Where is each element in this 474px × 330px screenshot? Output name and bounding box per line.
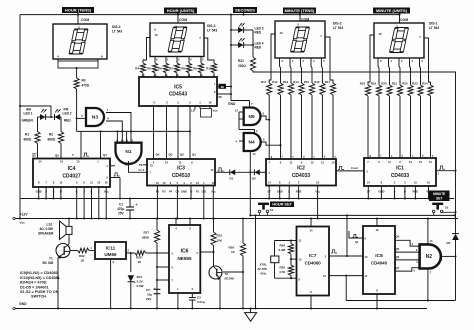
svg-text:HOUR (TENS): HOUR (TENS) (65, 7, 92, 12)
svg-text:N5: N5 (249, 114, 255, 120)
wire N4 input stub (239, 140, 244, 142)
wire xtal bottom (290, 276, 292, 279)
resistor R3 (76, 68, 78, 78)
wire IC8 Q4 out (395, 240, 420, 246)
wire hourset junction drop (249, 151, 251, 215)
svg-text:GND: GND (181, 190, 187, 194)
diode D1 (230, 169, 235, 175)
wire led feed (20, 106, 51, 117)
svg-text:N4: N4 (249, 140, 255, 146)
wire MINUTE UNITS stub (399, 14, 401, 24)
svg-text:RED: RED (64, 118, 71, 122)
svg-text:Ph: Ph (219, 95, 223, 99)
svg-text:MINUTE (TENS): MINUTE (TENS) (285, 8, 315, 13)
svg-text:S: S (45, 190, 47, 194)
wire IC6 pin4 (175, 219, 177, 226)
wire IC8 Q7 out (395, 268, 420, 271)
wire IC8 Q6 out (395, 259, 420, 261)
svg-text:GND: GND (228, 102, 236, 106)
node HOUR SET label (270, 202, 294, 208)
wire display3 bottom pins (154, 57, 156, 64)
svg-text:R31: R31 (238, 59, 244, 63)
svg-text:D2: D2 (252, 177, 256, 181)
wire display1 left segment (368, 35, 374, 85)
svg-text:COM: COM (400, 18, 408, 22)
wire N3 upper line (106, 113, 131, 143)
svg-text:470μ: 470μ (117, 207, 124, 211)
wire IC7 pin14 (310, 219, 312, 227)
gate N4 AND (244, 133, 261, 151)
svg-text:R2: R2 (49, 133, 53, 137)
resistor R28 1K (135, 251, 146, 256)
wire gnd rail (15, 308, 427, 310)
svg-text:R15: R15 (304, 80, 310, 84)
wire N2 vcc pin14 (427, 219, 429, 245)
wire bus to IC4 clock (80, 131, 82, 158)
svg-text:Q1: Q1 (192, 153, 196, 157)
wire IC11 pin2 out (126, 252, 135, 254)
svg-text:S1: S1 (270, 208, 274, 212)
diode D2 (254, 169, 259, 175)
svg-text:SWITCH: SWITCH (31, 295, 46, 299)
svg-text:Q1: Q1 (103, 153, 107, 157)
wire IC6 pin1 gnd (177, 293, 179, 309)
wire IC6 pin2 right (200, 251, 213, 253)
wire display1 bottom pins (378, 58, 379, 85)
svg-text:3.3V: 3.3V (137, 280, 143, 284)
svg-text:10: 10 (279, 31, 283, 35)
svg-text:R19: R19 (371, 82, 377, 86)
wire N1 input stubs (116, 131, 118, 142)
ic IC3 CD4510 (147, 159, 215, 186)
svg-text:LT 543: LT 543 (112, 30, 122, 34)
resistor R27 680K (156, 219, 158, 231)
svg-text:KHz: KHz (261, 272, 267, 276)
wire N5 output (262, 116, 270, 120)
resistors R18-R24 (365, 85, 370, 96)
wire IC11 pin3 gnd (110, 259, 112, 309)
svg-text:D5: D5 (447, 241, 451, 245)
svg-text:14: 14 (253, 152, 256, 156)
svg-text:IC11: IC11 (106, 246, 116, 251)
diode D5 (452, 234, 459, 240)
gate N2 AND (420, 244, 441, 268)
svg-text:10: 10 (154, 33, 158, 37)
svg-text:470Ω: 470Ω (82, 84, 90, 88)
capacitor C1 470u (129, 199, 131, 208)
wire HOUR TENS stub (77, 13, 79, 24)
wire T2 base (223, 271, 243, 273)
wire D1-D2 junction (235, 171, 254, 173)
svg-text:DIS-4: DIS-4 (112, 25, 121, 29)
svg-text:R6: R6 (158, 67, 162, 71)
led LED2 red (51, 116, 54, 118)
svg-text:14: 14 (165, 161, 168, 165)
wire top COM supply bus (20, 14, 400, 16)
svg-text:680Ω: 680Ω (48, 138, 56, 142)
svg-text:CD4543: CD4543 (169, 92, 188, 98)
svg-text:R27: R27 (144, 231, 150, 235)
svg-text:220Ω: 220Ω (238, 64, 246, 68)
resistor R32 1K (70, 250, 78, 252)
svg-text:+12V: +12V (20, 213, 29, 217)
led LED4 red (231, 44, 238, 46)
svg-text:R25: R25 (217, 234, 223, 238)
svg-text:R30: R30 (280, 266, 286, 270)
svg-text:IC3: IC3 (177, 166, 185, 172)
wire left vertical rail (19, 15, 21, 219)
svg-text:C1: C1 (119, 203, 123, 207)
svg-text:3.3M: 3.3M (279, 248, 286, 252)
svg-text:Q4: Q4 (396, 235, 400, 239)
wire display2 left segment (269, 34, 275, 83)
wire IC2 clock right (336, 170, 364, 172)
svg-text:SET: SET (436, 197, 442, 201)
svg-text:R11: R11 (261, 80, 267, 84)
wire display3 left segment (143, 38, 150, 64)
svg-text:C2: C2 (146, 288, 150, 292)
wire R2 to IC4 (60, 144, 62, 159)
wire Q1 to IC4 (100, 131, 102, 158)
svg-text:DIS-1: DIS-1 (429, 22, 438, 26)
wire seconds left drop (230, 15, 232, 94)
wire IC3 PE pin (143, 164, 147, 166)
svg-text:Q3: Q3 (169, 153, 173, 157)
wire IC5 BI pin (217, 86, 231, 88)
svg-text:R14: R14 (293, 80, 299, 84)
svg-text:R24: R24 (422, 82, 428, 86)
svg-text:R20: R20 (381, 82, 387, 86)
svg-text:13: 13 (77, 160, 80, 164)
wire right vertical (455, 240, 457, 301)
capacitor C2 10u (154, 288, 161, 290)
svg-text:10: 10 (378, 32, 382, 36)
svg-text:R3-R24 = 470Ω: R3-R24 = 470Ω (20, 281, 47, 285)
wire IC6 pin8 (189, 219, 191, 226)
switch S2 MINUTE SET (432, 203, 443, 205)
resistor R25 10K (213, 219, 215, 233)
svg-text:R22: R22 (402, 82, 408, 86)
svg-text:16: 16 (105, 181, 108, 185)
resistor R31 220 (250, 57, 255, 71)
node MINUTE SET label (429, 191, 450, 202)
wire led cathodes (252, 30, 254, 57)
resistor R29 3.3M (290, 241, 292, 244)
svg-text:CD4510: CD4510 (172, 173, 191, 179)
svg-text:Q0: Q0 (55, 154, 59, 158)
svg-text:BI: BI (221, 85, 224, 89)
svg-text:16: 16 (376, 228, 379, 232)
svg-text:K: K (90, 190, 92, 194)
svg-text:GREEN: GREEN (22, 118, 34, 122)
wire IC7 pin3 clock (329, 255, 363, 257)
svg-text:SPEAKER: SPEAKER (38, 232, 54, 236)
svg-text:IC7: IC7 (309, 253, 317, 259)
resistors R4-R10 (140, 63, 145, 73)
svg-text:P1: P1 (196, 190, 200, 194)
ic IC2 CD4033 (266, 159, 336, 186)
svg-text:R18: R18 (360, 82, 366, 86)
svg-text:R23: R23 (412, 82, 418, 86)
wire IC7 pin12 drop (345, 276, 347, 301)
svg-text:D1-D5 = 1N4001: D1-D5 = 1N4001 (20, 285, 49, 289)
wire minute tap (346, 215, 348, 256)
wire IC5 PH pin (217, 93, 231, 95)
wire N4 output (262, 142, 281, 145)
svg-text:LED 1: LED 1 (24, 111, 33, 115)
led LED3 red (231, 29, 238, 31)
svg-text:Q2: Q2 (180, 153, 184, 157)
svg-text:HOUR (UNITS): HOUR (UNITS) (167, 8, 195, 13)
svg-text:CD4040: CD4040 (371, 261, 388, 266)
svg-text:Vcc: Vcc (104, 190, 109, 194)
svg-text:R17: R17 (325, 80, 331, 84)
transistor T1 BC548 (68, 234, 70, 244)
svg-text:IC5: IC5 (174, 85, 182, 91)
svg-text:14: 14 (39, 160, 42, 164)
svg-text:4Ω, 0.5W: 4Ω, 0.5W (40, 227, 53, 231)
ic IC11 UM66 (95, 242, 126, 259)
wire IC5 LD loop (194, 106, 196, 110)
svg-text:R21: R21 (392, 82, 398, 86)
wire IC8 Q1 pin9 (349, 231, 363, 238)
crystal XTAL 32.768kHz (274, 241, 276, 257)
svg-text:CD4033: CD4033 (292, 173, 311, 179)
svg-text:25V: 25V (146, 297, 151, 301)
svg-text:GND: GND (19, 302, 27, 306)
svg-text:IC10(N3-N5) = CD4081: IC10(N3-N5) = CD4081 (20, 276, 60, 280)
wire display3 right segment (204, 38, 214, 63)
svg-text:N1: N1 (125, 149, 131, 155)
wire T2 emitter (219, 278, 221, 308)
svg-text:N3: N3 (92, 115, 98, 121)
svg-text:RED: RED (255, 31, 262, 35)
wire IC8 pin8 gnd (376, 294, 378, 309)
ic IC8 CD4040 (363, 226, 395, 294)
svg-text:R7: R7 (169, 67, 173, 71)
ic IC5 CD4543 (139, 77, 217, 106)
wire T1 emitter (57, 257, 59, 308)
svg-text:IC6: IC6 (181, 249, 189, 255)
wire bus rail gnd-logic (21, 198, 454, 200)
svg-text:IC4: IC4 (68, 166, 76, 172)
svg-text:P3: P3 (162, 190, 166, 194)
svg-text:DIS-2: DIS-2 (333, 22, 342, 26)
svg-text:R32: R32 (79, 254, 85, 258)
ic IC7 CD4060 (297, 227, 330, 296)
wire R1 to IC4 (37, 144, 39, 159)
wire IC3 clock pin (215, 171, 230, 173)
svg-text:Vcc: Vcc (20, 221, 26, 225)
svg-text:PE: PE (139, 163, 143, 167)
wire N3 output (106, 121, 122, 143)
wire IC6 pin6 left (157, 266, 169, 268)
svg-text:GND: GND (36, 190, 42, 194)
svg-text:K: K (76, 190, 78, 194)
wire bottom n2 line (346, 300, 455, 302)
resistor R1 680 (35, 132, 40, 144)
wire xtal mid (290, 254, 292, 265)
svg-text:IC8: IC8 (375, 253, 383, 259)
svg-text:CD4027: CD4027 (62, 174, 81, 180)
ground symbol (250, 309, 252, 314)
svg-text:25V: 25V (118, 212, 125, 216)
svg-text:DIS-3: DIS-3 (207, 24, 216, 28)
svg-text:RED: RED (255, 46, 262, 50)
zener ZD1 3.3V (130, 253, 132, 272)
svg-text:+: + (136, 203, 138, 207)
svg-text:Q0: Q0 (32, 154, 36, 158)
svg-text:R29: R29 (280, 244, 286, 248)
svg-text:R26: R26 (229, 246, 235, 250)
switch S1 HOUR SET (258, 203, 269, 205)
svg-text:R9: R9 (193, 67, 197, 71)
display DIS-1 LT543 minute units (374, 23, 424, 58)
gate N3 AND (86, 108, 104, 126)
svg-text:Cout: Cout (351, 166, 358, 170)
wire display2 bottom pins (280, 58, 281, 83)
svg-text:13: 13 (125, 163, 129, 167)
svg-text:COM: COM (301, 17, 309, 21)
svg-text:CD4060: CD4060 (305, 261, 322, 266)
svg-text:R4: R4 (135, 67, 139, 71)
svg-text:10: 10 (97, 181, 100, 185)
svg-text:680Ω: 680Ω (24, 138, 32, 142)
wire segment columns to IC2 (268, 95, 270, 159)
svg-text:S: S (53, 190, 55, 194)
wire IC7 pin8 gnd (310, 296, 312, 309)
svg-text:COM: COM (81, 18, 89, 22)
svg-text:S1-S2 = PUSH TO ON: S1-S2 = PUSH TO ON (20, 290, 59, 294)
node HOUR (UNITS) label (164, 8, 197, 14)
svg-text:T1: T1 (49, 257, 53, 261)
svg-text:10μ: 10μ (147, 293, 152, 297)
wire N3 input (77, 117, 86, 119)
svg-text:15: 15 (60, 160, 63, 164)
resistors R11-R17 (267, 83, 272, 95)
svg-text:IC9(N1-N2) = CD4082: IC9(N1-N2) = CD4082 (20, 271, 58, 275)
wire SECONDS stub (243, 13, 245, 15)
svg-text:14: 14 (310, 228, 313, 232)
svg-text:LT 543: LT 543 (207, 29, 217, 33)
transistor T2 BC548 (213, 252, 215, 267)
wire N2 gnd pin7 (427, 269, 429, 301)
svg-text:LD: LD (191, 109, 195, 113)
svg-text:P4: P4 (169, 190, 173, 194)
display DIS-3 LT543 hour units (150, 23, 204, 57)
wire IC6 pin3 left (157, 252, 169, 254)
wire IC7 pin12 (329, 275, 363, 277)
svg-text:16: 16 (209, 101, 212, 105)
svg-text:LT 543: LT 543 (429, 26, 439, 30)
svg-text:UM66: UM66 (104, 252, 117, 257)
wire display bracket (57, 59, 59, 61)
svg-text:R: R (60, 190, 62, 194)
svg-text:LED 2: LED 2 (63, 111, 72, 115)
svg-text:32.768: 32.768 (258, 267, 268, 271)
svg-text:R12: R12 (272, 80, 278, 84)
svg-text:COM: COM (179, 18, 187, 22)
node HOUR (TENS) label (62, 7, 94, 13)
wire D2 to IC2 (260, 171, 266, 173)
wire IC5 to IC3 bus (153, 106, 155, 159)
resistor R26 1K (242, 219, 244, 244)
svg-text:ZD1: ZD1 (137, 275, 143, 279)
svg-text:NE555: NE555 (177, 256, 191, 261)
svg-text:Q5: Q5 (396, 247, 400, 251)
wire IC8 Q5 out (395, 251, 420, 253)
svg-text:MINUTE (UNITS): MINUTE (UNITS) (376, 8, 408, 13)
wire N1 output (129, 161, 148, 172)
svg-text:Q6: Q6 (396, 255, 400, 259)
svg-text:0.01μ: 0.01μ (197, 300, 205, 304)
speaker LS1 (68, 219, 70, 227)
svg-text:680K: 680K (142, 236, 150, 240)
svg-text:4.7K: 4.7K (279, 270, 286, 274)
wire seconds line (253, 71, 456, 234)
wire display1 right segment (424, 38, 431, 85)
wire set rail (250, 214, 454, 216)
svg-text:LS1: LS1 (47, 223, 53, 227)
svg-text:R28: R28 (136, 256, 142, 260)
svg-text:MINUTE: MINUTE (433, 192, 445, 196)
svg-text:R3: R3 (82, 79, 86, 83)
wire IC8 pin16 (376, 219, 378, 227)
node MINUTE (TENS) label (283, 8, 316, 14)
svg-text:Q1: Q1 (355, 240, 359, 244)
display DIS-2 LT543 minute tens (275, 21, 325, 58)
wire segment columns to IC1 (367, 96, 369, 158)
gate N1 AND (116, 143, 142, 164)
svg-text:Q4: Q4 (156, 153, 160, 157)
svg-text:S2: S2 (445, 206, 449, 210)
ic IC6 NE555 (169, 225, 200, 293)
svg-text:HOUR SET: HOUR SET (272, 203, 292, 207)
svg-text:Vcc: Vcc (213, 109, 219, 113)
svg-text:CD4033: CD4033 (391, 173, 410, 179)
svg-text:XTAL: XTAL (260, 263, 268, 267)
node SECONDS label (233, 7, 257, 13)
ic IC1 CD4033 (364, 158, 436, 186)
svg-text:10K: 10K (217, 239, 223, 243)
svg-text:Co-F: Co-F (139, 168, 145, 172)
wire N2 output (440, 255, 456, 257)
svg-text:IC1: IC1 (396, 166, 404, 172)
wire seconds mid vertical (255, 215, 257, 308)
svg-text:SECONDS: SECONDS (235, 7, 255, 12)
svg-text:0.5W: 0.5W (137, 284, 144, 288)
wire IC1 clock right (436, 170, 456, 172)
svg-text:12: 12 (59, 181, 62, 185)
svg-text:R13: R13 (283, 80, 289, 84)
wire MINUTE TENS stub (299, 14, 301, 22)
svg-text:R16: R16 (314, 80, 320, 84)
svg-text:T: T (72, 153, 74, 157)
svg-text:D1: D1 (230, 177, 234, 181)
wire +12V rail (15, 218, 458, 220)
wire IC6 pin7 left (157, 279, 169, 281)
svg-text:Q7: Q7 (396, 266, 400, 270)
svg-text:R1: R1 (25, 133, 29, 137)
svg-text:T2: T2 (225, 272, 229, 276)
wire logic bus (77, 130, 191, 132)
wire R3 down to bus (76, 89, 78, 131)
svg-text:BC548: BC548 (225, 277, 235, 281)
wire N5 to N4 loop (239, 130, 255, 134)
node MINUTE (UNITS) label (373, 8, 410, 14)
gate N5 AND (244, 108, 261, 126)
led LED1 green (38, 116, 41, 118)
